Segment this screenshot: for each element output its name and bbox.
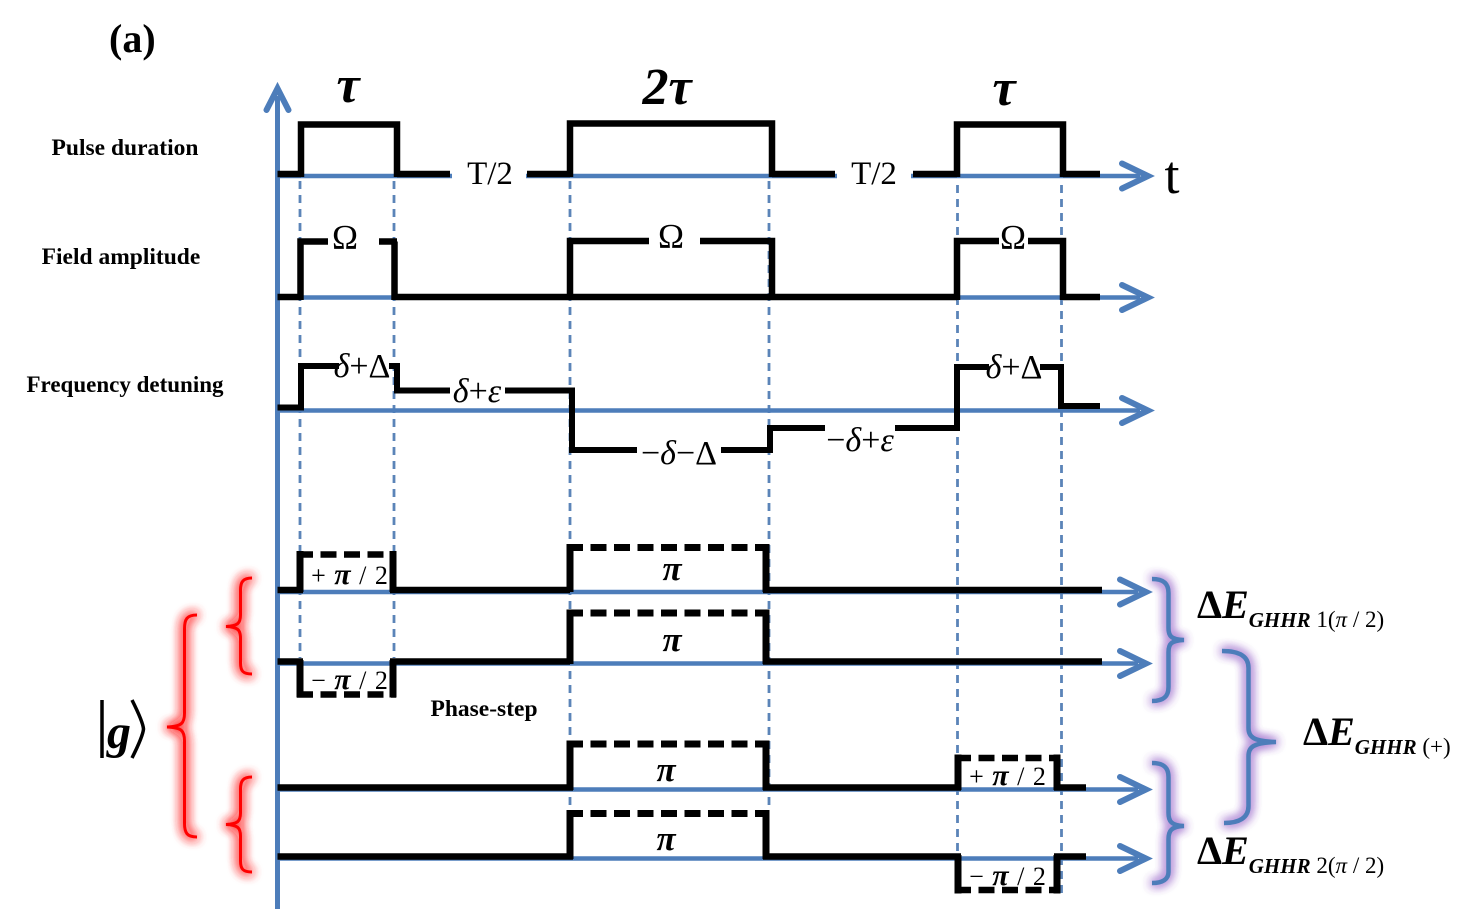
step edge fall t6 [1058, 364, 1064, 409]
svg-text:Frequency detuning: Frequency detuning [26, 372, 224, 397]
pulse A1 row2 rising [301, 242, 329, 301]
phase box -pi/2 rowB left edge [297, 660, 304, 698]
ROW3 [278, 363, 1101, 453]
dashed guide x394 [393, 181, 396, 658]
svg-text:τ: τ [336, 57, 361, 114]
label d+e whitebox [450, 377, 505, 405]
svg-text:ΔEGHHR (+): ΔEGHHR (+) [1303, 709, 1451, 759]
level d+D seg2 [389, 363, 397, 369]
level -d-D seg1 [572, 447, 637, 453]
label Omega 3 whitebox [1000, 222, 1027, 252]
wire row1 baseline seg d [772, 171, 835, 178]
phase box +pi/2 rowA dashed top [297, 551, 396, 558]
svg-text:− π / 2: − π / 2 [311, 663, 389, 696]
level d+e seg2 [505, 388, 572, 394]
level -d-D seg2 [721, 447, 770, 453]
dashed guide x769 [768, 181, 771, 810]
wire rowD baseline right [1054, 853, 1086, 860]
step edge fall t2 [394, 363, 400, 394]
phase box pi rowC dashed top [567, 741, 769, 748]
pulse A2 row2 falling [700, 241, 772, 300]
svg-text:π: π [656, 819, 676, 858]
wire rowC baseline left [278, 784, 574, 791]
blue brace row CD glow [1152, 763, 1184, 883]
svg-text:Ω: Ω [332, 218, 358, 257]
phase box +pi/2 rowC dashed top [955, 755, 1060, 762]
label d+D 1 whitebox [339, 352, 389, 380]
svg-text:Pulse duration: Pulse duration [52, 135, 199, 161]
phase box +pi/2 rowC left edge [955, 755, 962, 791]
phase box pi rowB right edge [763, 610, 770, 665]
svg-text:2τ: 2τ [641, 59, 693, 116]
wire row1 baseline seg c [527, 171, 570, 178]
blue brace big glow [1222, 651, 1276, 823]
wire rowB baseline left [278, 658, 304, 665]
wire rowB baseline right [763, 658, 1102, 665]
rowC arrowhead [1120, 777, 1146, 802]
step edge fall t3 [569, 388, 575, 454]
svg-text:δ+Δ: δ+Δ [986, 349, 1043, 386]
phase box +pi/2 rowC right edge [1054, 755, 1061, 791]
svg-text:ΔEGHHR 2(π / 2): ΔEGHHR 2(π / 2) [1197, 828, 1384, 878]
svg-text:− π / 2: − π / 2 [969, 859, 1047, 892]
label d+D 2 whitebox [989, 353, 1040, 381]
ket g angle [132, 700, 144, 758]
svg-text:(a): (a) [109, 16, 156, 61]
wire row3 baseline right [1061, 403, 1100, 409]
dashed guide x570 [569, 181, 572, 810]
dashed guide x1061 [1060, 185, 1063, 897]
phase box +pi/2 rowA right edge [390, 551, 397, 592]
phase box pi rowC left edge [567, 741, 574, 791]
phase box pi rowC right edge [763, 741, 770, 791]
RIGHTSIDE [1152, 579, 1451, 883]
pulse P2 2tau row1 [570, 124, 772, 178]
level -d+e seg2 [895, 425, 957, 431]
pulse A3 row2 rising [957, 241, 999, 300]
label -d-D whitebox [637, 438, 721, 466]
phase box -pi/2 rowB dashed bottom [297, 691, 396, 698]
step edge rise t1 [298, 363, 304, 411]
wire row1 baseline seg b [397, 171, 450, 178]
red brace big [167, 615, 197, 837]
label -d+e whitebox [825, 425, 895, 453]
row2 arrowhead [1122, 285, 1148, 310]
label Omega 1 whitebox [332, 222, 359, 252]
svg-text:T/2: T/2 [467, 156, 513, 192]
blue brace row AB glow [1152, 579, 1184, 701]
svg-text:t: t [1164, 145, 1179, 205]
phase box pi rowD left edge [567, 810, 574, 859]
svg-text:T/2: T/2 [851, 156, 897, 192]
svg-text:ΔEGHHR 1(π / 2): ΔEGHHR 1(π / 2) [1197, 582, 1384, 632]
wire rowA baseline left [278, 587, 304, 594]
step edge rise t5 [954, 364, 960, 431]
phase box +pi/2 rowA left edge [297, 551, 304, 592]
dashed guide x957 [956, 185, 959, 897]
wire row1 baseline left [278, 171, 302, 178]
svg-text:g: g [106, 706, 131, 759]
wire rowD baseline mid [763, 853, 961, 860]
BLUELINES [267, 89, 1149, 909]
row3 arrowhead [1122, 398, 1148, 423]
svg-text:Ω: Ω [658, 217, 684, 256]
row3 time line [278, 408, 1141, 413]
svg-text:π: π [662, 620, 682, 659]
phase box -pi/2 rowD dashed bottom [955, 887, 1060, 894]
svg-text:π: π [656, 750, 676, 789]
rowD arrowhead [1120, 846, 1146, 871]
level -d+e seg1 [770, 425, 825, 431]
LEFTSIDE [102, 578, 252, 872]
level d+D2 seg2 [1040, 364, 1061, 370]
svg-text:−δ−Δ: −δ−Δ [641, 435, 717, 472]
phase box pi rowB left edge [567, 610, 574, 665]
wire row2 baseline left [278, 294, 302, 301]
wire row2 baseline mid [395, 294, 957, 301]
rowB arrowhead [1120, 651, 1146, 676]
svg-text:+ π / 2: + π / 2 [311, 558, 389, 591]
vertical time axis [275, 96, 280, 909]
svg-text:δ+Δ: δ+Δ [334, 348, 391, 385]
svg-text:+ π / 2: + π / 2 [969, 759, 1047, 792]
svg-text:τ: τ [992, 60, 1017, 117]
svg-text:Field amplitude: Field amplitude [42, 244, 201, 270]
wire rowA baseline right [763, 587, 1102, 594]
rowB time line [278, 661, 1139, 666]
label Omega 2 whitebox [650, 221, 690, 251]
phase box pi rowA left edge [567, 544, 574, 592]
phase box -pi/2 rowB right edge [390, 660, 397, 698]
svg-text:Phase-step: Phase-step [430, 696, 537, 722]
phase box pi rowD dashed top [567, 810, 769, 817]
wire row3 baseline left [278, 405, 302, 411]
label T/2 first whitebox [452, 158, 526, 191]
red brace small2 [226, 777, 252, 872]
red brace small2 glow [226, 777, 252, 872]
rowC time line [278, 787, 1139, 792]
wire rowA baseline mid [390, 587, 570, 594]
row1 time line [278, 174, 1141, 179]
phase box pi rowA dashed top [567, 544, 769, 551]
level d+D2 seg1 [957, 364, 989, 370]
pulse A3 row2 falling [1028, 241, 1063, 300]
wire rowD baseline left [278, 853, 574, 860]
wire row1 baseline right [1063, 171, 1100, 178]
wire rowC baseline mid [763, 784, 961, 791]
red brace big glow [167, 615, 197, 837]
row1 arrowhead [1122, 164, 1148, 189]
wire rowB baseline mid [390, 658, 570, 665]
phase box pi rowD right edge [763, 810, 770, 859]
pulse P3 tau row1 [957, 125, 1063, 178]
step edge rise t4 [767, 425, 773, 453]
rowA arrowhead [1120, 580, 1146, 605]
pulse P1 tau row1 [301, 125, 397, 178]
blue brace row CD [1152, 763, 1184, 883]
red brace small1 glow [226, 578, 252, 674]
phase box -pi/2 rowD left edge [955, 855, 962, 894]
pulse A1 row2 falling [379, 242, 397, 301]
ket g bar [100, 700, 104, 758]
PHASES [278, 544, 1103, 894]
ROW1 [278, 124, 1101, 178]
level d+D seg1 [301, 363, 339, 369]
level d+e seg1 [397, 388, 450, 394]
phase box pi rowB dashed top [567, 610, 769, 617]
dashed guide x300 [299, 181, 302, 658]
label T/2 second whitebox [837, 158, 911, 191]
axis arrowhead up [267, 89, 289, 111]
blue brace big [1222, 651, 1276, 823]
phase box -pi/2 rowD right edge [1054, 855, 1061, 894]
red brace small1 [226, 578, 252, 674]
svg-text:δ+ε: δ+ε [453, 373, 502, 410]
rowD time line [278, 856, 1139, 861]
GUIDES [300, 181, 1062, 897]
pulse A2 row2 rising [570, 241, 649, 300]
rowA time line [278, 590, 1139, 595]
wire rowC baseline right [1054, 784, 1086, 791]
svg-text:π: π [662, 549, 682, 588]
svg-text:Ω: Ω [1000, 218, 1026, 257]
svg-text:−δ+ε: −δ+ε [826, 422, 894, 459]
wire row1 baseline seg e [913, 171, 957, 178]
blue brace row AB [1152, 579, 1184, 701]
wire row2 baseline right [1063, 294, 1100, 301]
phase box pi rowA right edge [763, 544, 770, 592]
row2 time line [278, 295, 1141, 300]
ROW2 [278, 241, 1101, 300]
